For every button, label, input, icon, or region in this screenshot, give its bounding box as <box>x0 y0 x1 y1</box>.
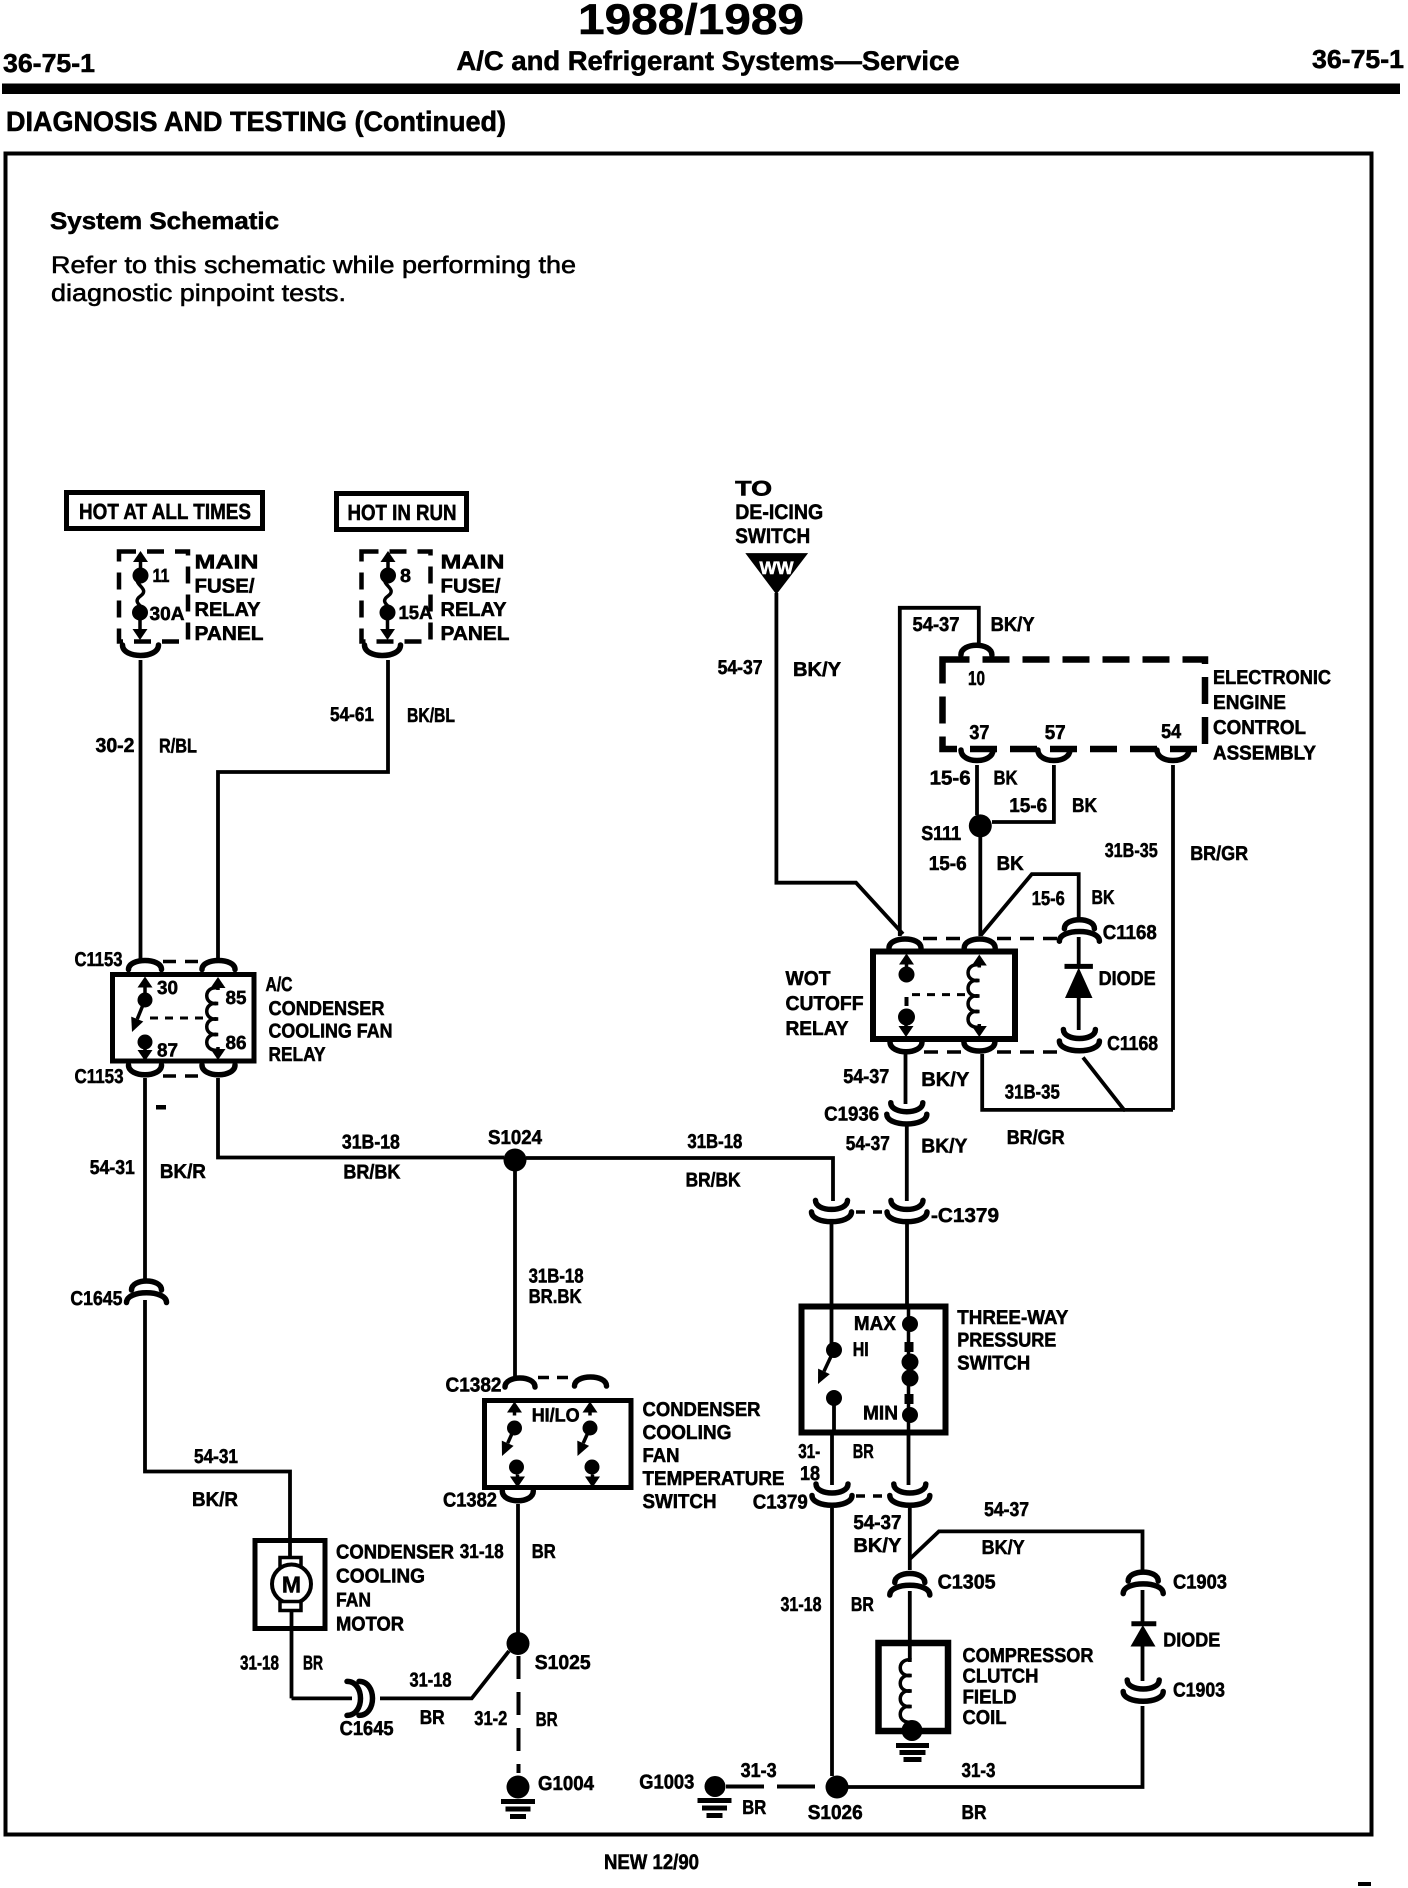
wire 54-37 BK/Y EEC pin10 loop to WOT relay <box>900 608 979 936</box>
WOT relay contact arrow up <box>905 963 909 969</box>
wire 15-6 BK EEC 57 to S111 <box>992 765 1054 822</box>
wire diode to C1168 lower <box>1077 996 1081 1030</box>
svg-text:15-6: 15-6 <box>930 768 971 790</box>
connector C1168 lower half <box>1063 1030 1095 1039</box>
svg-text:54-37: 54-37 <box>718 657 763 679</box>
diode D2 triangle <box>1131 1625 1156 1647</box>
svg-text:MIN: MIN <box>863 1403 898 1425</box>
svg-text:BR: BR <box>851 1594 874 1616</box>
connector C1153 top dashed link <box>163 960 201 964</box>
connector cavity EEC pin 37 <box>961 750 993 761</box>
svg-text:COIL: COIL <box>963 1707 1007 1729</box>
svg-text:BK/Y: BK/Y <box>982 1537 1026 1559</box>
svg-text:C1645: C1645 <box>340 1718 394 1740</box>
svg-text:54-61: 54-61 <box>330 704 374 726</box>
WOT relay coil winding <box>968 965 979 1027</box>
svg-text:PANEL: PANEL <box>195 623 264 645</box>
connector C1645 inline lower half <box>347 1681 361 1715</box>
diode D2 cathode bar <box>1131 1621 1156 1626</box>
motor return wire to C1645 <box>292 1697 353 1701</box>
svg-text:FIELD: FIELD <box>963 1686 1017 1708</box>
relay contact dot pin87 <box>138 1035 153 1050</box>
svg-text:PRESSURE: PRESSURE <box>957 1330 1056 1352</box>
svg-text:MAIN: MAIN <box>195 552 259 574</box>
svg-text:SWITCH: SWITCH <box>735 525 810 548</box>
fuse element top terminal dot <box>380 568 396 584</box>
svg-text:S1024: S1024 <box>488 1127 543 1149</box>
fuse S-curve element <box>385 576 392 613</box>
pressure switch HI output wire <box>832 1398 836 1433</box>
temp switch right arrow up <box>588 1411 592 1416</box>
svg-text:C1382: C1382 <box>443 1490 497 1512</box>
svg-text:COOLING: COOLING <box>336 1566 425 1588</box>
svg-text:WW: WW <box>760 558 794 578</box>
svg-text:57: 57 <box>1045 722 1066 744</box>
connector C1903 upper half <box>1128 1572 1158 1581</box>
svg-text:11: 11 <box>153 566 170 587</box>
connector C1153 top cavity pin30 <box>129 961 162 970</box>
connector C1379 upper dashed link <box>856 1210 882 1214</box>
wire 54-37 BK/Y WOT relay to C1936 <box>904 1054 908 1104</box>
svg-text:CLUTCH: CLUTCH <box>963 1666 1039 1688</box>
svg-text:HOT IN RUN: HOT IN RUN <box>348 500 457 525</box>
svg-text:54: 54 <box>1161 721 1182 743</box>
svg-text:C1903: C1903 <box>1173 1680 1225 1702</box>
wire C1379 to pressure switch left <box>830 1224 834 1308</box>
svg-text:C1903: C1903 <box>1173 1572 1227 1594</box>
connector C1903 lower half <box>1127 1680 1159 1689</box>
wire 54-61 BK/BL fuse 8 to relay coil 85 <box>218 660 388 959</box>
wire 31-3 BR S1026 to diode branch <box>848 1706 1143 1787</box>
svg-text:8: 8 <box>400 566 411 587</box>
label box HOT IN RUN <box>337 494 467 530</box>
WOT relay coil arrow up <box>978 964 982 968</box>
svg-text:COOLING FAN: COOLING FAN <box>269 1021 393 1043</box>
stray mark bottom right <box>1358 1882 1371 1886</box>
temp switch left lower dot <box>509 1460 524 1475</box>
svg-text:ELECTRONIC: ELECTRONIC <box>1213 667 1331 689</box>
svg-text:FUSE/: FUSE/ <box>441 575 501 597</box>
svg-text:BR: BR <box>532 1541 556 1563</box>
svg-text:CONDENSER: CONDENSER <box>643 1399 762 1421</box>
header rule <box>2 84 1400 95</box>
wire C1379 to pressure switch right <box>905 1224 909 1308</box>
temp switch right arm <box>583 1428 590 1443</box>
splice S1026 <box>826 1776 849 1799</box>
svg-text:85: 85 <box>226 988 247 1009</box>
svg-text:ENGINE: ENGINE <box>1213 692 1286 714</box>
wire 54-37 BK/Y C1379 to C1305 <box>908 1508 912 1570</box>
wire 54-37 BK/Y de-icing to WOT relay <box>776 593 903 934</box>
svg-text:-C1379: -C1379 <box>931 1205 999 1227</box>
svg-text:37: 37 <box>969 722 989 744</box>
svg-text:BR/BK: BR/BK <box>686 1170 741 1192</box>
svg-text:DIAGNOSIS AND TESTING (Continu: DIAGNOSIS AND TESTING (Continued) <box>6 106 506 137</box>
pressure switch HI contact wire <box>830 1308 834 1344</box>
svg-text:TEMPERATURE: TEMPERATURE <box>643 1468 785 1490</box>
wire pressure switch right to C1379 lower <box>907 1433 911 1485</box>
svg-text:BK/Y: BK/Y <box>991 614 1036 636</box>
connector C1379 lower left cavity <box>816 1484 848 1493</box>
splice S111 <box>969 814 992 837</box>
motor circle M <box>272 1565 311 1604</box>
svg-text:C1153: C1153 <box>75 1066 124 1088</box>
svg-text:30: 30 <box>157 978 178 999</box>
relay contact dot pin30 <box>138 993 153 1008</box>
relay coil arrow up <box>216 986 220 990</box>
clutch coil case ground <box>896 1743 929 1748</box>
svg-text:BK: BK <box>1072 795 1097 817</box>
connector C1379 upper left cavity <box>816 1200 848 1209</box>
relay contact arrow up pin30 <box>143 986 147 994</box>
pressure switch contact chain <box>907 1308 911 1433</box>
WOT relay contact lower dot <box>898 1009 915 1026</box>
svg-text:54-37: 54-37 <box>913 614 960 636</box>
wire WOT coil 86 to 31B-35 junction <box>982 1054 1125 1110</box>
wire diode to C1903 lower <box>1141 1644 1145 1681</box>
WOT relay coil arrow down <box>978 1024 982 1028</box>
dashed ground wire 31-2 BR <box>517 1656 521 1773</box>
svg-text:BK: BK <box>1092 887 1115 909</box>
WOT relay contact upper dot <box>899 967 915 983</box>
svg-text:31-3: 31-3 <box>741 1760 777 1782</box>
svg-text:R/BL: R/BL <box>159 736 197 758</box>
svg-text:31B-18: 31B-18 <box>687 1131 742 1153</box>
connector C1153 bottom dashed link <box>163 1074 201 1078</box>
svg-text:BR: BR <box>853 1441 874 1463</box>
label box HOT AT ALL TIMES <box>67 493 263 529</box>
svg-text:C1168: C1168 <box>1107 1033 1158 1055</box>
wire 31B-18 BR.BK S1024 down to C1382 <box>513 1171 517 1376</box>
svg-text:PANEL: PANEL <box>441 623 510 645</box>
wire 15-6 BK S111 to WOT relay coil <box>978 837 982 936</box>
svg-text:15-6: 15-6 <box>1009 795 1047 817</box>
ground G1004 <box>507 1776 530 1799</box>
temp switch left arrow up <box>513 1411 517 1416</box>
svg-text:BR: BR <box>420 1707 445 1729</box>
svg-text:BK/Y: BK/Y <box>921 1069 970 1091</box>
connector cavity EEC pin 54 <box>1157 750 1189 761</box>
pressure switch MAX dot <box>902 1316 918 1332</box>
temp switch left arrow down <box>516 1475 520 1479</box>
connector top dashed link to C1168 <box>923 937 962 941</box>
diode D1 cathode bar <box>1065 964 1093 969</box>
temp switch left upper dot <box>507 1421 522 1436</box>
svg-text:COMPRESSOR: COMPRESSOR <box>963 1645 1094 1667</box>
connector C1153 bottom cavity pin86 <box>202 1065 235 1075</box>
svg-text:C1936: C1936 <box>824 1104 879 1126</box>
svg-text:C1168: C1168 <box>1103 922 1157 944</box>
relay coil arrow down <box>216 1047 220 1051</box>
connector C1379 lower dashed link <box>856 1494 884 1498</box>
svg-text:54-31: 54-31 <box>90 1157 135 1179</box>
clutch coil terminal dot <box>902 1720 923 1741</box>
relay movable contact arm <box>137 1000 145 1019</box>
svg-text:31-18: 31-18 <box>460 1541 504 1563</box>
WOT relay contact gap dash <box>905 997 909 1006</box>
svg-text:31B-18: 31B-18 <box>342 1132 400 1154</box>
svg-text:BK: BK <box>994 768 1018 790</box>
svg-text:C1382: C1382 <box>446 1375 502 1397</box>
svg-text:S1026: S1026 <box>808 1802 863 1824</box>
svg-text:15A: 15A <box>399 603 433 624</box>
connector top cavity WOT relay right <box>964 939 995 948</box>
svg-text:HI: HI <box>853 1339 869 1361</box>
svg-text:BK/Y: BK/Y <box>793 659 842 681</box>
svg-text:36-75-1: 36-75-1 <box>1312 44 1404 74</box>
WOT cutoff relay box <box>873 952 1015 1040</box>
svg-text:BK/R: BK/R <box>192 1489 239 1511</box>
svg-text:31B-35: 31B-35 <box>1105 840 1158 862</box>
relay K1 A/C condenser cooling fan relay box <box>113 975 255 1062</box>
wire C1168 to diode <box>1077 937 1081 966</box>
svg-text:BK: BK <box>997 853 1025 875</box>
svg-text:FUSE/: FUSE/ <box>195 575 255 597</box>
svg-text:MOTOR: MOTOR <box>336 1614 405 1636</box>
svg-text:BR: BR <box>962 1802 987 1824</box>
fuse element top terminal dot <box>133 568 149 584</box>
connector C1153 bottom cavity pin87 <box>129 1065 162 1075</box>
svg-text:31-18: 31-18 <box>410 1670 452 1692</box>
svg-text:C1645: C1645 <box>70 1288 122 1310</box>
svg-text:System Schematic: System Schematic <box>50 208 279 235</box>
svg-text:S111: S111 <box>921 823 961 845</box>
svg-text:TO: TO <box>735 477 772 500</box>
svg-text:CONTROL: CONTROL <box>1213 717 1306 739</box>
relay coil winding <box>207 988 218 1050</box>
svg-text:54-37: 54-37 <box>846 1133 890 1155</box>
three-way pressure switch box <box>802 1307 946 1433</box>
connector C1168 upper half <box>1064 920 1094 929</box>
wire 31-18 BR motor return <box>290 1610 294 1698</box>
svg-text:C1153: C1153 <box>75 949 123 971</box>
svg-text:diagnostic pinpoint tests.: diagnostic pinpoint tests. <box>51 280 346 307</box>
fuse dashed housing <box>119 552 188 642</box>
clutch coil winding <box>900 1660 911 1722</box>
wire 31B-35 BR/GR EEC 54 down <box>1171 765 1175 1110</box>
svg-text:Refer to this schematic while: Refer to this schematic while performing… <box>51 252 576 279</box>
wire 31-18 BR to S1026 <box>830 1508 834 1776</box>
svg-text:87: 87 <box>157 1041 178 1062</box>
connector C1382 top dashed link <box>538 1376 572 1380</box>
pressure switch HI arm <box>824 1350 834 1371</box>
svg-text:DIODE: DIODE <box>1099 968 1156 990</box>
svg-text:31-18: 31-18 <box>781 1594 822 1616</box>
svg-text:A/C: A/C <box>266 974 293 996</box>
off-page triangle WW <box>745 553 808 594</box>
wire 54-31 BK/R relay 87 to C1645 <box>143 1078 147 1280</box>
svg-text:BR/BK: BR/BK <box>343 1162 400 1184</box>
connector C1379 upper right cavity <box>891 1200 923 1209</box>
svg-text:BK/Y: BK/Y <box>853 1535 902 1557</box>
connector cavity EEC pin 10 <box>961 645 992 655</box>
temp switch left arm <box>508 1428 515 1443</box>
svg-text:FAN: FAN <box>643 1445 680 1467</box>
svg-text:54-37: 54-37 <box>984 1499 1029 1521</box>
connector C1382 top cavity left <box>505 1378 535 1387</box>
motor brush bottom <box>280 1602 301 1611</box>
dashed wire 31-3 BR G1003 to S1026 <box>726 1785 824 1789</box>
svg-text:31B-35: 31B-35 <box>1005 1082 1060 1104</box>
svg-text:30A: 30A <box>150 604 185 625</box>
connector C1305 inline <box>895 1574 925 1583</box>
WOT relay internal dashed actuator line <box>912 993 972 996</box>
connector C1153 top cavity pin85 <box>202 961 235 970</box>
svg-text:MAIN: MAIN <box>441 552 505 574</box>
temp switch right lower dot <box>585 1460 600 1475</box>
stray scan tick <box>156 1105 166 1110</box>
temp switch right arrow down <box>591 1475 595 1479</box>
svg-text:CONDENSER: CONDENSER <box>269 998 386 1020</box>
WOT relay contact arrow down <box>904 1024 908 1028</box>
connector C1382 bottom cavity <box>502 1491 533 1501</box>
compressor clutch field coil box <box>879 1643 949 1731</box>
wire 15-6 BK EEC 37 to S111 <box>975 765 979 815</box>
fuse element arrow down <box>138 619 142 631</box>
svg-text:SWITCH: SWITCH <box>957 1353 1030 1375</box>
svg-text:C1305: C1305 <box>938 1572 996 1594</box>
pressure switch MIN dot <box>902 1407 918 1423</box>
condenser cooling fan motor box <box>255 1541 325 1629</box>
svg-text:FAN: FAN <box>336 1590 371 1612</box>
pressure switch HI upper dot <box>826 1342 842 1358</box>
wire C1903 to diode <box>1141 1590 1145 1622</box>
fuse element arrow up <box>139 560 143 572</box>
wire pressure switch left to C1379 lower <box>830 1433 834 1485</box>
svg-text:BR.BK: BR.BK <box>529 1286 582 1308</box>
connector C1936 inline <box>891 1103 923 1112</box>
svg-text:BK/BL: BK/BL <box>407 705 455 727</box>
svg-text:15-6: 15-6 <box>1032 888 1065 910</box>
wire C1305 to clutch coil <box>908 1591 912 1662</box>
svg-text:G1004: G1004 <box>538 1773 595 1795</box>
pressure switch HI lower dot <box>826 1390 842 1406</box>
svg-text:RELAY: RELAY <box>441 599 508 621</box>
svg-text:RELAY: RELAY <box>269 1044 327 1066</box>
EEC assembly dashed box <box>943 660 1206 750</box>
wire branch to diode C1903 <box>910 1531 1143 1570</box>
diode D1 triangle <box>1065 968 1093 999</box>
svg-text:36-75-1: 36-75-1 <box>3 48 95 78</box>
connector below fuse panel left <box>123 645 159 656</box>
svg-text:CONDENSER: CONDENSER <box>336 1542 455 1564</box>
svg-text:DE-ICING: DE-ICING <box>735 501 823 524</box>
svg-text:DIODE: DIODE <box>1163 1630 1220 1652</box>
motor brush top <box>280 1558 301 1567</box>
relay contact arrow down pin87 <box>143 1046 147 1052</box>
connector bottom dashed link to C1168 <box>924 1050 962 1054</box>
svg-text:BR: BR <box>742 1797 766 1819</box>
svg-text:C1379: C1379 <box>753 1492 808 1514</box>
fuse dashed housing <box>362 552 431 642</box>
svg-text:54-37: 54-37 <box>853 1512 901 1534</box>
splice S1025 <box>507 1632 530 1655</box>
svg-text:31-: 31- <box>798 1441 820 1463</box>
wire 54-37 BK/Y C1936 to C1379 <box>905 1125 909 1201</box>
connector C1382 top cavity right <box>575 1377 607 1386</box>
svg-text:BR/GR: BR/GR <box>1190 843 1248 865</box>
relay internal dashed actuator line <box>150 1017 209 1020</box>
svg-text:G1003: G1003 <box>639 1772 694 1794</box>
svg-text:A/C and Refrigerant Systems—Se: A/C and Refrigerant Systems—Service <box>457 46 960 76</box>
temperature switch box <box>485 1401 632 1488</box>
connector cavity EEC pin 57 <box>1038 750 1070 761</box>
temp switch right upper dot <box>583 1421 598 1436</box>
svg-text:SWITCH: SWITCH <box>643 1491 717 1513</box>
splice S1024 <box>504 1149 527 1172</box>
connector bottom cavity WOT relay right <box>964 1042 995 1051</box>
svg-text:CUTOFF: CUTOFF <box>786 993 864 1015</box>
wire 31-18 BR C1645 to S1025 <box>380 1651 509 1698</box>
svg-text:COOLING: COOLING <box>643 1422 732 1444</box>
svg-text:BR/GR: BR/GR <box>1007 1127 1065 1149</box>
fuse S-curve element <box>137 576 144 613</box>
wire 31B-18 BR/BK S1024 to C1379 <box>526 1158 833 1201</box>
svg-text:M: M <box>282 1572 301 1598</box>
svg-text:86: 86 <box>226 1033 247 1054</box>
svg-text:BK/R: BK/R <box>160 1161 207 1183</box>
svg-text:WOT: WOT <box>786 968 831 990</box>
wire 30-2 R/BL fuse 11 to relay pin 30 <box>139 660 143 959</box>
connector bottom cavity WOT relay left <box>890 1042 922 1052</box>
svg-text:15-6: 15-6 <box>929 853 967 875</box>
connector C1645 inline upper half <box>132 1281 162 1290</box>
svg-text:10: 10 <box>968 668 985 690</box>
svg-text:MAX: MAX <box>854 1313 897 1335</box>
wire 31-18 BR temp switch to S1025 <box>516 1504 520 1634</box>
svg-text:30-2: 30-2 <box>96 735 135 757</box>
fuse element bottom terminal dot <box>380 605 396 621</box>
fuse element arrow up <box>386 560 390 572</box>
svg-text:31-2: 31-2 <box>474 1708 507 1730</box>
connector C1379 lower right cavity <box>894 1484 926 1493</box>
svg-text:BK/Y: BK/Y <box>921 1136 968 1158</box>
fuse element bottom terminal dot <box>132 605 148 621</box>
svg-text:NEW 12/90: NEW 12/90 <box>604 1851 699 1874</box>
svg-text:31B-18: 31B-18 <box>529 1266 584 1288</box>
svg-text:54-37: 54-37 <box>843 1066 889 1088</box>
wire 54-31 BK/R C1645 to motor <box>145 1300 290 1542</box>
svg-text:54-31: 54-31 <box>194 1446 238 1468</box>
svg-text:BR: BR <box>303 1653 323 1675</box>
svg-text:RELAY: RELAY <box>195 599 262 621</box>
svg-text:BR: BR <box>536 1709 558 1731</box>
svg-text:RELAY: RELAY <box>786 1018 850 1040</box>
svg-text:31-18: 31-18 <box>240 1653 279 1675</box>
svg-text:1988/1989: 1988/1989 <box>578 0 804 44</box>
connector top cavity WOT relay left <box>889 939 921 948</box>
svg-text:S1025: S1025 <box>535 1652 591 1674</box>
wire C1168 to 31B-35 junction <box>1083 1057 1173 1110</box>
svg-text:THREE-WAY: THREE-WAY <box>957 1307 1069 1329</box>
svg-text:ASSEMBLY: ASSEMBLY <box>1213 742 1317 764</box>
wire 15-6 BK branch to C1168 diode <box>981 874 1079 935</box>
motor feed wire inside <box>288 1542 292 1560</box>
wire 31B-18 BR/BK relay 86 to splice S1024 <box>218 1078 504 1158</box>
svg-text:31-3: 31-3 <box>962 1760 996 1782</box>
svg-text:HI/LO: HI/LO <box>532 1406 580 1427</box>
svg-text:HOT AT ALL TIMES: HOT AT ALL TIMES <box>79 499 251 524</box>
connector below fuse panel right <box>365 645 401 656</box>
fuse element arrow down <box>386 619 390 631</box>
